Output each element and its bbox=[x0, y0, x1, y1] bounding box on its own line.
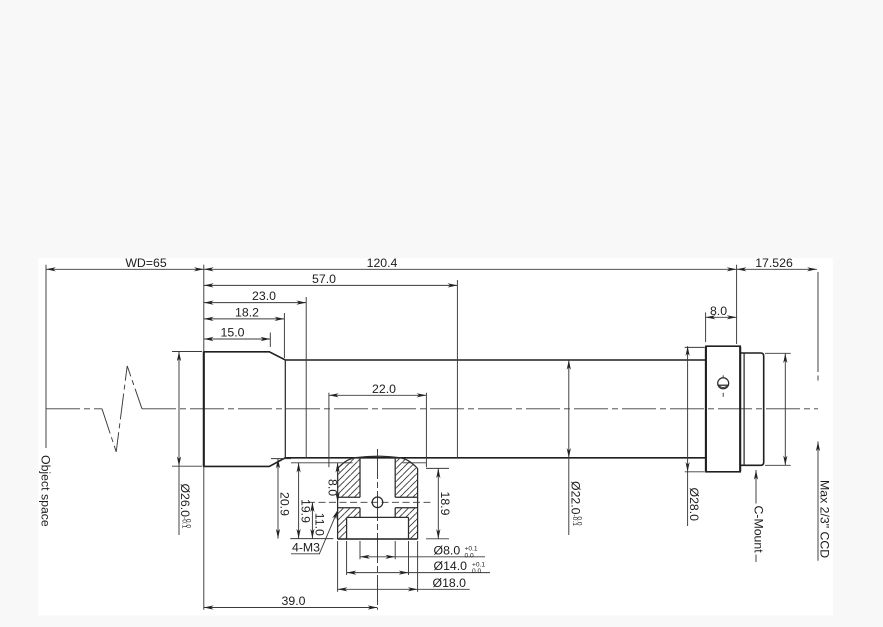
svg-text:19.9: 19.9 bbox=[299, 499, 313, 523]
svg-text:4-M3: 4-M3 bbox=[292, 541, 320, 555]
svg-text:Ø8.0: Ø8.0 bbox=[434, 543, 461, 557]
svg-text:Ø14.0: Ø14.0 bbox=[434, 559, 468, 573]
svg-text:17.526: 17.526 bbox=[755, 256, 793, 270]
svg-text:Max 2/3" CCD: Max 2/3" CCD bbox=[818, 480, 832, 558]
svg-text:57.0: 57.0 bbox=[312, 272, 336, 286]
svg-text:11.0: 11.0 bbox=[313, 513, 327, 536]
svg-text:C-Mount: C-Mount bbox=[752, 506, 766, 554]
svg-text:Object space: Object space bbox=[39, 455, 53, 527]
svg-text:Ø28.0: Ø28.0 bbox=[687, 488, 701, 522]
svg-text:WD=65: WD=65 bbox=[125, 256, 167, 270]
svg-text:8.0: 8.0 bbox=[325, 479, 339, 496]
svg-text:39.0: 39.0 bbox=[282, 594, 306, 608]
svg-text:120.4: 120.4 bbox=[367, 256, 398, 270]
svg-text:20.9: 20.9 bbox=[278, 492, 292, 516]
svg-text:23.0: 23.0 bbox=[252, 289, 276, 303]
svg-text:Ø18.0: Ø18.0 bbox=[433, 576, 467, 590]
svg-text:22.0: 22.0 bbox=[372, 382, 396, 396]
svg-text:18.2: 18.2 bbox=[235, 306, 259, 320]
svg-text:18.9: 18.9 bbox=[438, 492, 452, 516]
svg-text:8.0: 8.0 bbox=[710, 304, 727, 318]
svg-text:15.0: 15.0 bbox=[221, 326, 245, 340]
svg-text:0.0: 0.0 bbox=[472, 568, 481, 575]
